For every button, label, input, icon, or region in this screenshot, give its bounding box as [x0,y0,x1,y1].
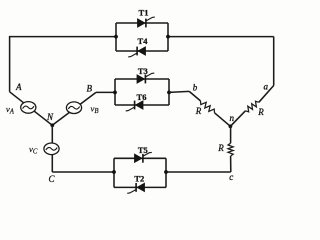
thyristor T1 [138,19,146,27]
junction dot T1/T4 left [114,35,118,39]
svg-text:vB: vB [91,104,99,116]
wire bottom rail from T5/T2 block to corner c [166,171,231,173]
wire node n down to resistor (c side) [230,126,232,143]
svg-text:C: C [48,174,55,184]
junction dot T3/T6 left [113,91,117,95]
svg-text:b: b [193,83,198,93]
thyristor T4 [138,47,146,55]
svg-text:T4: T4 [138,36,149,46]
wire T4 branch bottom [116,50,168,52]
node N junction dot [50,123,54,127]
wire from T3/T6 block to corner b [169,91,189,92]
svg-text:c: c [229,172,233,182]
wire bottom rail from C to T5/T2 block [52,171,114,173]
wire T3 branch top [115,78,169,80]
wire node n to resistor (a side) [230,111,245,127]
svg-text:N: N [46,112,54,122]
svg-text:R: R [195,106,202,116]
AC source v_A [21,102,36,114]
svg-text:T3: T3 [138,66,148,76]
wire resistor down to corner c [230,156,232,172]
wire top rail right segment [168,36,274,38]
wire diagonal source branch A [10,92,53,126]
wire top rail left segment [10,36,116,38]
svg-text:A: A [15,82,22,92]
svg-text:T6: T6 [137,92,147,102]
T3/T6 block right edge [168,79,170,105]
wire resistor to corner a [259,86,274,103]
junction dot T1/T4 right [166,35,170,39]
T1/T4 block right edge [167,23,169,51]
junction dot T5/T2 left [112,170,116,174]
svg-text:vC: vC [29,144,38,156]
thyristor T5 [135,154,143,162]
wire diagonal source branch B [52,92,96,125]
T3/T6 block left edge [114,79,116,105]
resistor R phase c zigzag [228,143,233,156]
thyristor T6 [136,101,144,109]
svg-text:a: a [264,81,269,91]
svg-text:T5: T5 [138,145,148,155]
thyristor T3 [137,75,145,83]
resistor R phase a zigzag [245,101,258,112]
thyristor T2 [137,183,145,191]
node n junction dot [229,124,233,128]
wire T5 branch top [114,157,166,159]
svg-text:R: R [217,143,224,153]
wire corner b to resistor [189,91,200,101]
T5/T2 block right edge [165,158,167,187]
wire right vertical phase-a feeder [273,37,275,86]
AC source v_B [66,102,81,114]
resistor R phase b zigzag [201,101,215,113]
wire T6 branch bottom [115,104,169,106]
T5/T2 block left edge [113,158,115,187]
svg-text:n: n [230,113,235,123]
wire horizontal B to T3/T6 block [96,91,115,93]
svg-text:T1: T1 [139,8,149,18]
svg-text:R: R [257,107,264,117]
junction dot T5/T2 right [164,170,168,174]
wire T2 branch bottom [114,186,166,188]
svg-text:T2: T2 [134,173,144,183]
wire vertical source branch C [51,125,53,172]
svg-text:vA: vA [6,104,15,116]
AC source v_C [44,143,59,155]
junction dot T3/T6 right [167,91,171,95]
wire left vertical phase-A feeder [9,36,11,92]
svg-text:B: B [87,83,93,93]
wire T1 branch top [116,22,168,24]
wire resistor to node n (b side) [215,113,231,127]
T1/T4 block left edge [115,23,117,51]
